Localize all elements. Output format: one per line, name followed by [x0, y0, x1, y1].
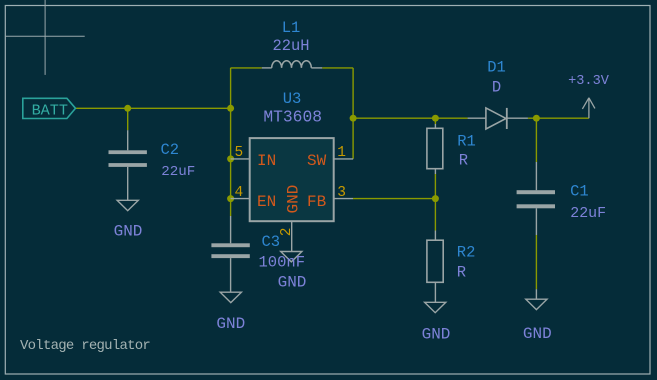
- svg-text:L1: L1: [282, 19, 301, 37]
- junction R1 rail: [432, 115, 439, 122]
- wire node to R2: [434, 199, 436, 231]
- svg-text:C3: C3: [262, 233, 281, 251]
- svg-text:GND: GND: [422, 325, 451, 343]
- svg-text:R1: R1: [457, 133, 476, 151]
- wire node to C1: [535, 118, 537, 162]
- svg-text:SW: SW: [307, 152, 327, 170]
- junction IN pin: [227, 155, 234, 162]
- svg-text:GND: GND: [216, 315, 245, 333]
- junction SW rail: [350, 115, 357, 122]
- svg-text:22uF: 22uF: [570, 206, 606, 222]
- junction BATT/C2: [124, 105, 131, 112]
- svg-text:22uF: 22uF: [161, 164, 195, 180]
- junction FB/R1/R2: [432, 195, 439, 202]
- svg-text:EN: EN: [257, 193, 276, 211]
- svg-text:100nF: 100nF: [259, 254, 306, 272]
- svg-text:GND: GND: [523, 325, 552, 343]
- capacitor C1: [517, 162, 555, 235]
- svg-text:2: 2: [279, 227, 295, 236]
- BATT net flag: [23, 98, 76, 119]
- pin 2 GND bottom: [279, 185, 302, 252]
- inductor L1: [262, 61, 322, 68]
- diode D1: [468, 108, 528, 129]
- svg-text:D1: D1: [487, 58, 506, 76]
- svg-text:D: D: [492, 78, 501, 96]
- svg-text:MT3608: MT3608: [263, 108, 322, 127]
- svg-text:1: 1: [337, 145, 346, 161]
- svg-text:3: 3: [337, 185, 346, 201]
- svg-text:GND: GND: [285, 185, 303, 214]
- resistor R2: [427, 231, 443, 303]
- svg-text:R2: R2: [457, 244, 476, 262]
- wire BATT to left rail: [76, 107, 231, 109]
- wire right vertical from L1 to SW: [352, 68, 354, 159]
- svg-text:U3: U3: [283, 90, 302, 108]
- capacitor C3: [211, 216, 249, 292]
- svg-text:22uH: 22uH: [273, 37, 310, 55]
- svg-text:FB: FB: [307, 193, 326, 211]
- pin 1 SW: [307, 145, 353, 170]
- ground under C3: [216, 292, 245, 333]
- wire rail to diode: [353, 117, 468, 119]
- capacitor C2: [109, 130, 147, 200]
- svg-text:C1: C1: [570, 182, 589, 200]
- wire FB to node: [353, 198, 435, 200]
- svg-text:IN: IN: [257, 152, 276, 170]
- wire L1 right: [322, 67, 353, 69]
- sheet crosshair vertical line: [44, 0, 46, 75]
- wire down to C2: [127, 108, 129, 130]
- wire R1 bottom to FB node: [434, 174, 436, 199]
- svg-text:R: R: [457, 263, 466, 281]
- svg-text:Voltage regulator: Voltage regulator: [20, 338, 150, 354]
- svg-text:GND: GND: [278, 274, 307, 292]
- sheet crosshair horizontal line: [5, 35, 84, 37]
- svg-text:5: 5: [235, 145, 244, 161]
- ground under R2: [422, 302, 451, 343]
- power flag +3.3V: [568, 74, 610, 118]
- pin 5 IN: [231, 145, 277, 170]
- svg-text:4: 4: [235, 185, 244, 201]
- ground under C1: [523, 289, 552, 343]
- junction left rail top: [227, 105, 234, 112]
- ground under C2: [114, 200, 143, 240]
- resistor R1: [427, 124, 443, 174]
- junction C1 rail: [533, 115, 540, 122]
- svg-text:+3.3V: +3.3V: [568, 74, 610, 89]
- wire C1 to GND: [535, 235, 537, 289]
- svg-text:GND: GND: [114, 223, 143, 241]
- pin 4 EN: [231, 185, 277, 211]
- svg-text:R: R: [459, 151, 468, 169]
- ground at pin 2: [278, 252, 307, 292]
- svg-text:C2: C2: [161, 141, 180, 159]
- junction EN pin: [227, 195, 234, 202]
- svg-text:BATT: BATT: [32, 101, 68, 119]
- wire R1 top: [434, 118, 436, 124]
- op-amp U3 MT3608 body: [250, 138, 334, 221]
- wire top to L1 left: [231, 67, 262, 69]
- pin 3 FB: [307, 185, 353, 211]
- wire diode to +3.3V: [528, 117, 589, 119]
- wire left vertical rail: [230, 68, 232, 216]
